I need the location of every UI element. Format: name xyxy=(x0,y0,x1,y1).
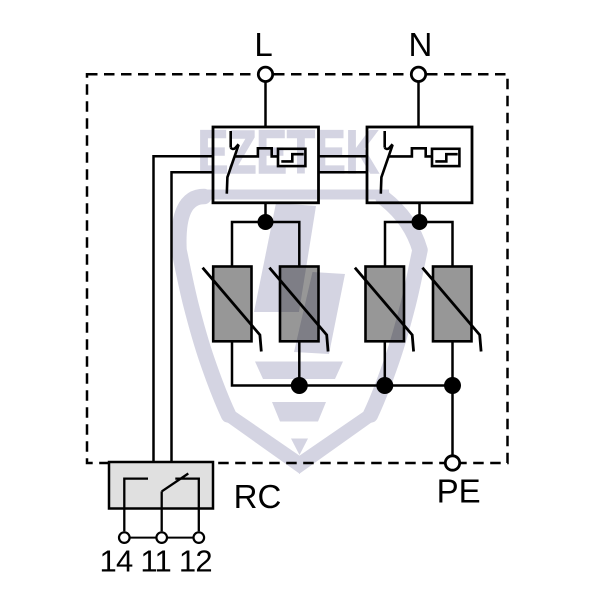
svg-text:N: N xyxy=(408,26,432,63)
svg-text:14 11 12: 14 11 12 xyxy=(100,544,212,579)
svg-text:PE: PE xyxy=(437,473,481,510)
svg-text:EZETEK: EZETEK xyxy=(198,117,379,186)
svg-text:L: L xyxy=(254,26,272,63)
svg-text:RC: RC xyxy=(234,478,282,515)
